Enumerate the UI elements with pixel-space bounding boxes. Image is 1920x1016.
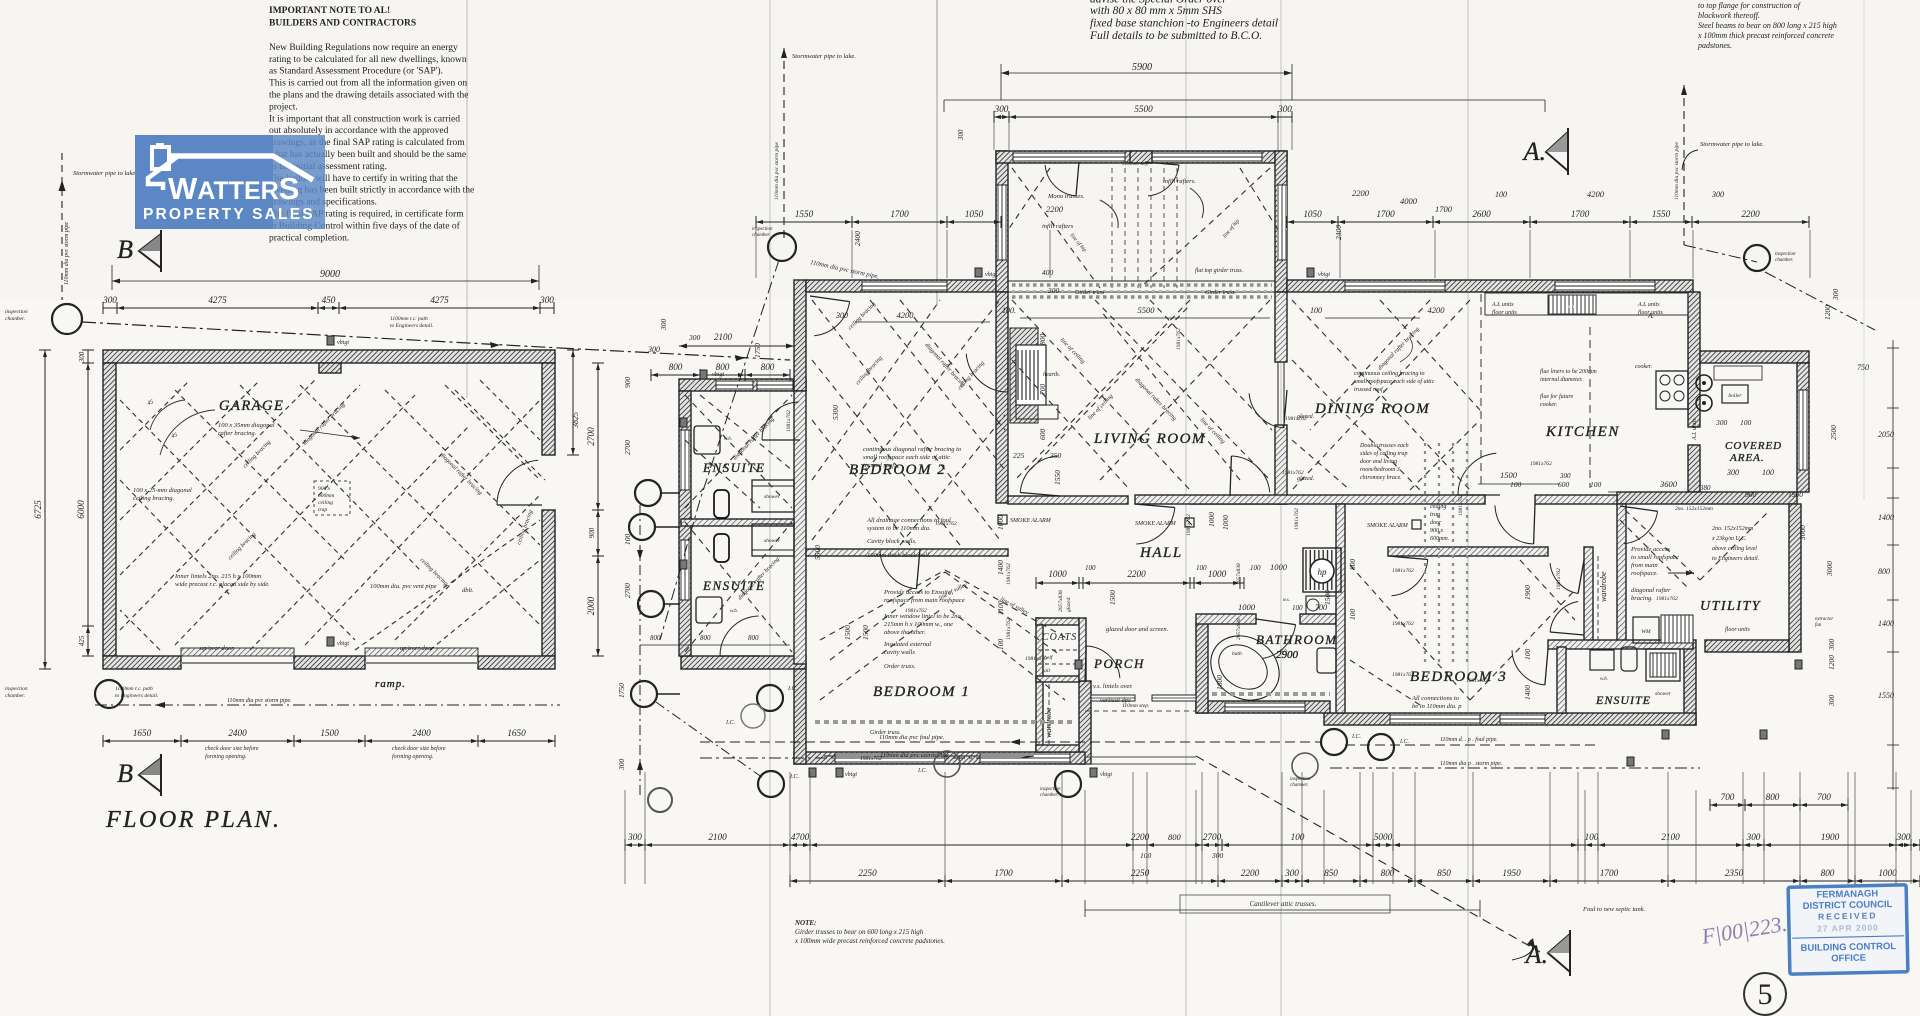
utility external door [1624, 511, 1658, 544]
svg-text:with 80 x 80 mm x 5mm SHS: with 80 x 80 mm x 5mm SHS [1090, 5, 1222, 17]
svg-text:110mm dia p . storm pipe.: 110mm dia p . storm pipe. [1440, 761, 1502, 767]
svg-text:DISTRICT COUNCIL: DISTRICT COUNCIL [1803, 899, 1893, 912]
svg-text:300: 300 [647, 345, 660, 354]
svg-text:x 23kg/m U.C.: x 23kg/m U.C. [1711, 536, 1747, 542]
svg-text:700: 700 [1315, 603, 1327, 612]
svg-text:300: 300 [1746, 832, 1761, 842]
bay north wall [996, 151, 1287, 163]
bay east glazing2 [1277, 185, 1287, 260]
boiler [1722, 385, 1748, 403]
svg-text:New Building Regulations now r: New Building Regulations now require an … [269, 43, 458, 53]
svg-text:to Engineers detail.: to Engineers detail. [115, 693, 158, 699]
vent/pipe marker [1627, 757, 1634, 766]
dining north window [1345, 281, 1445, 291]
svg-text:continuous ceiling bracing to: continuous ceiling bracing to [1354, 371, 1425, 377]
svg-text:900: 900 [623, 377, 632, 389]
inspection chamber [758, 771, 784, 797]
svg-text:100: 100 [1762, 468, 1774, 477]
svg-text:the plans and the drawing deta: the plans and the drawing details associ… [269, 91, 468, 101]
svg-text:GARAGE: GARAGE [219, 398, 284, 414]
inspection chamber [757, 685, 783, 711]
svg-text:w.b.: w.b. [1600, 677, 1608, 682]
svg-text:350: 350 [1049, 451, 1062, 460]
west wall below ensuite2 [794, 664, 806, 764]
svg-text:Full details to be submitted t: Full details to be submitted to B.C.O. [1089, 30, 1262, 42]
bottom right chain [1585, 844, 1911, 846]
garage right dim 3825 [572, 350, 574, 455]
svg-text:1981x762: 1981x762 [1466, 678, 1488, 684]
svg-text:1981x762: 1981x762 [1392, 672, 1414, 678]
bedroom3 south external wall [1324, 713, 1696, 725]
bathroom wc [1317, 648, 1336, 673]
svg-text:27 APR 2000: 27 APR 2000 [1817, 922, 1879, 933]
svg-text:100: 100 [1085, 564, 1096, 572]
garage top dim chain [103, 307, 554, 309]
bathroom north wall east [1300, 614, 1336, 624]
svg-text:100: 100 [1310, 306, 1322, 315]
svg-text:internal diameter.: internal diameter. [1540, 377, 1583, 383]
bedroom2 entry door [814, 302, 849, 336]
svg-text:800: 800 [1878, 567, 1890, 576]
svg-text:WM: WM [1641, 629, 1651, 635]
svg-text:1400: 1400 [996, 560, 1005, 575]
vent/pipe marker [700, 370, 707, 379]
garage door lintel right [365, 648, 478, 656]
kitchen east wall lower [1688, 445, 1700, 492]
svg-text:110mm d. . p . foul pipe.: 110mm d. . p . foul pipe. [1440, 736, 1498, 743]
vertical stormwater dashed (centre) [783, 48, 785, 240]
svg-text:above the other.: above the other. [884, 629, 926, 636]
svg-text:1900: 1900 [1788, 490, 1803, 499]
svg-text:2700: 2700 [623, 583, 632, 598]
bay west glazing2 [997, 185, 1007, 260]
svg-text:1550: 1550 [1053, 470, 1062, 485]
svg-text:inspection: inspection [1040, 787, 1061, 792]
svg-text:600: 600 [1558, 480, 1570, 489]
svg-text:AREA.: AREA. [1729, 452, 1765, 464]
svg-text:800: 800 [761, 362, 775, 372]
svg-text:1700: 1700 [890, 209, 909, 219]
svg-text:door: door [1430, 520, 1442, 526]
living-hall door left [1020, 456, 1058, 493]
svg-text:B: B [117, 235, 133, 264]
svg-text:room/bedroom 3: room/bedroom 3 [1360, 467, 1400, 473]
svg-text:SMOKE ALARM: SMOKE ALARM [1010, 518, 1052, 524]
bathroom cabinet [1306, 596, 1336, 614]
ceiling bracing dashed diagonals [812, 300, 1000, 540]
inspection chamber [1321, 729, 1347, 755]
svg-text:100: 100 [1140, 851, 1152, 860]
svg-text:chamber.: chamber. [1775, 258, 1793, 263]
svg-text:100: 100 [1523, 649, 1532, 661]
covered area east wall [1797, 363, 1809, 492]
ensuite3 shower [1646, 649, 1680, 681]
svg-text:110mm dia pvc storm pipe: 110mm dia pvc storm pipe [774, 141, 780, 200]
svg-text:100: 100 [1196, 564, 1207, 572]
svg-text:100: 100 [1250, 564, 1261, 572]
svg-text:roofspace.: roofspace. [1631, 570, 1658, 577]
garage perimeter path dashdot bottom [95, 704, 560, 706]
svg-text:5: 5 [1758, 978, 1773, 1011]
svg-text:BUILDERS AND CONTRACTORS: BUILDERS AND CONTRACTORS [269, 19, 416, 29]
svg-text:1000: 1000 [1878, 868, 1897, 878]
ensuite north rooflight 2 [757, 380, 793, 390]
svg-text:2057x838: 2057x838 [1058, 590, 1064, 612]
svg-text:Provide access: Provide access [1630, 546, 1670, 553]
svg-text:out absolutely in accordance w: out absolutely in accordance with the ap… [269, 126, 449, 136]
kitchen east wall [1688, 292, 1700, 427]
svg-text:flue liners to be 200mm: flue liners to be 200mm [1540, 368, 1597, 375]
utility sink drainer [1661, 615, 1693, 643]
svg-text:1000: 1000 [996, 515, 1005, 530]
svg-text:300: 300 [1277, 104, 1292, 114]
svg-text:300: 300 [1715, 418, 1728, 427]
svg-text:750: 750 [1857, 363, 1869, 372]
svg-text:2100: 2100 [1661, 832, 1680, 842]
inspection chamber top [768, 233, 796, 261]
coats east wall [1079, 618, 1086, 681]
svg-text:w.b.: w.b. [730, 609, 738, 614]
vent/pipe marker [1090, 768, 1097, 777]
svg-text:1981x762: 1981x762 [786, 410, 792, 432]
dimension extension hairlines bottom [644, 772, 646, 884]
pipe from right IC diagonal [1765, 272, 1875, 330]
svg-text:small roofspace each side of a: small roofspace each side of attic [1354, 378, 1435, 385]
dim chain right of bay [1287, 221, 1530, 223]
svg-text:2700: 2700 [623, 440, 632, 455]
svg-text:100: 100 [1740, 418, 1752, 427]
svg-text:1981x762: 1981x762 [1176, 328, 1182, 350]
cooker [1656, 371, 1688, 409]
svg-text:rail: rail [1042, 668, 1050, 674]
svg-text:to Engineers detail.: to Engineers detail. [390, 323, 433, 329]
inspection chamber [52, 304, 82, 334]
bay north glazing left [1013, 152, 1125, 162]
vent/pipe marker [1795, 660, 1802, 669]
svg-text:1981x762: 1981x762 [935, 521, 957, 527]
svg-text:1000: 1000 [1208, 569, 1227, 579]
inspection chamber [1055, 771, 1081, 797]
svg-text:dblt.: dblt. [462, 587, 474, 594]
garage ceiling trap door [314, 481, 350, 515]
council received stamp [1788, 885, 1908, 974]
svg-text:flat top girder truss.: flat top girder truss. [1195, 267, 1243, 274]
svg-text:KITCHEN: KITCHEN [1545, 424, 1620, 440]
utility north wall [1617, 492, 1797, 504]
svg-text:1100mm step: 1100mm step [1122, 162, 1149, 167]
svg-text:vbigt: vbigt [1318, 272, 1330, 278]
svg-text:be in 110mm dia. p: be in 110mm dia. p [1412, 703, 1462, 710]
svg-text:1981x762: 1981x762 [1530, 461, 1552, 467]
svg-text:check door size before: check door size before [205, 745, 259, 752]
svg-text:1600: 1600 [1215, 675, 1224, 690]
girder truss band bedroom1 [815, 720, 1075, 724]
svg-text:1500: 1500 [843, 625, 852, 640]
bedroom2/bedroom1 partition [806, 549, 1008, 556]
vent/pipe marker [809, 768, 816, 777]
svg-text:diagonal rafter: diagonal rafter [1631, 587, 1671, 594]
svg-text:4200: 4200 [1587, 189, 1605, 199]
ensuite2 wc [714, 534, 729, 562]
svg-text:Stormwater pipe to lake.: Stormwater pipe to lake. [792, 53, 856, 60]
svg-text:Double trusses each: Double trusses each [1359, 443, 1409, 449]
svg-text:1900: 1900 [1523, 585, 1532, 600]
svg-text:PORCH: PORCH [1093, 656, 1145, 671]
svg-text:1550: 1550 [1652, 209, 1671, 219]
svg-text:I.C.: I.C. [789, 774, 799, 780]
hall north wall right part [1535, 495, 1617, 504]
svg-text:600mm.: 600mm. [1430, 536, 1449, 542]
svg-text:600mm: 600mm [318, 493, 334, 499]
svg-text:Foul to new septic tank.: Foul to new septic tank. [1582, 906, 1646, 913]
svg-text:chamber.: chamber. [1290, 783, 1308, 788]
svg-text:1981x762: 1981x762 [905, 608, 927, 614]
svg-text:Steel beams to bear on 800 lon: Steel beams to bear on 800 long x 215 hi… [1698, 21, 1837, 30]
svg-text:2057x838: 2057x838 [1236, 618, 1242, 640]
svg-text:vbigt: vbigt [1100, 772, 1112, 778]
svg-text:3000: 3000 [1798, 525, 1807, 541]
living room south wall east part [1190, 496, 1287, 504]
svg-text:rating to be calculated for al: rating to be calculated for all new dwel… [269, 54, 467, 65]
bay french door l [1045, 165, 1076, 196]
bedroom3 south window [1390, 714, 1480, 724]
svg-text:800: 800 [669, 362, 683, 372]
svg-text:shower: shower [764, 494, 781, 500]
kitchen-hall door [1458, 453, 1496, 495]
inspection chamber [629, 514, 655, 540]
bay west wall [996, 151, 1008, 292]
svg-text:All connections to: All connections to [1411, 695, 1460, 702]
svg-text:100 x 35mm diagonal: 100 x 35mm diagonal [218, 422, 275, 429]
svg-text:ENSUITE: ENSUITE [702, 460, 766, 475]
svg-text:Cavity block walls.: Cavity block walls. [867, 538, 917, 545]
utility south wall [1705, 640, 1789, 652]
svg-text:800: 800 [748, 634, 759, 642]
north external wall right of bay [1287, 280, 1693, 292]
garage plan group [103, 350, 555, 690]
ensuite2 wb [696, 597, 722, 623]
vent/pipe marker [1307, 268, 1314, 277]
svg-text:chamber.: chamber. [752, 233, 770, 238]
svg-text:5000: 5000 [1374, 832, 1393, 842]
svg-text:300: 300 [1047, 286, 1060, 295]
svg-text:100: 100 [1590, 480, 1602, 489]
coats/wardrobe west wall [1036, 618, 1043, 752]
svg-text:900 x: 900 x [318, 486, 331, 492]
svg-text:300: 300 [1831, 289, 1840, 302]
vent/pipe marker [1662, 730, 1669, 739]
svg-text:vbigt: vbigt [337, 641, 349, 647]
svg-text:2900: 2900 [1276, 649, 1299, 661]
svg-text:blockwork thereoff.: blockwork thereoff. [1698, 11, 1760, 20]
svg-text:100: 100 [1510, 480, 1522, 489]
svg-text:BEDROOM 1: BEDROOM 1 [873, 684, 970, 700]
svg-text:forming opening.: forming opening. [205, 753, 246, 760]
dim chain left of bay [756, 221, 1001, 223]
svg-text:2no. 152x152mm: 2no. 152x152mm [1675, 506, 1713, 512]
svg-text:4275: 4275 [430, 295, 449, 305]
svg-text:450: 450 [322, 295, 336, 305]
garage bottom wall centre pier [294, 656, 365, 669]
svg-text:ceiling bracing.: ceiling bracing. [133, 495, 175, 502]
svg-text:110mm dia pvc storm pipe: 110mm dia pvc storm pipe [1674, 141, 1680, 200]
hall-porch door [1136, 508, 1174, 545]
svg-text:1700: 1700 [1571, 209, 1590, 219]
bay north centre pier [1130, 151, 1152, 163]
dashed kitchen zone lines [1480, 294, 1482, 488]
svg-text:110mm dia pvc foul pipe.: 110mm dia pvc foul pipe. [879, 734, 945, 741]
house dimensions [1000, 64, 1002, 100]
svg-text:A.L units: A.L units [1637, 302, 1660, 308]
bay mouth wall plate lines [1008, 280, 1275, 282]
svg-text:cooker.: cooker. [1635, 364, 1652, 370]
svg-text:1981x762: 1981x762 [1392, 568, 1414, 574]
svg-text:shower: shower [1655, 691, 1672, 697]
dimension extension hairlines top [755, 230, 757, 278]
garage top wall pier [319, 363, 341, 373]
svg-text:x 100mm wide precast reinforce: x 100mm wide precast reinforced concrete… [794, 937, 945, 945]
logo house icon [152, 147, 169, 169]
svg-text:above ceiling level: above ceiling level [1712, 546, 1757, 552]
svg-text:1900: 1900 [1821, 832, 1840, 842]
ensuite2 shower [752, 524, 794, 556]
svg-text:up/over door: up/over door [400, 645, 434, 652]
svg-text:100: 100 [1292, 604, 1303, 612]
svg-text:5500: 5500 [813, 545, 822, 560]
storm pipe from top IC down to wing [700, 260, 779, 500]
svg-text:1981x762: 1981x762 [860, 756, 882, 762]
svg-text:300: 300 [1711, 190, 1724, 199]
svg-text:2500: 2500 [1829, 425, 1838, 440]
inspection chamber [635, 480, 661, 506]
bathroom north wall [1196, 614, 1256, 624]
porch glazed front [1091, 695, 1135, 701]
svg-text:800: 800 [650, 634, 661, 642]
svg-text:1050: 1050 [965, 209, 984, 219]
svg-text:IMPORTANT NOTE TO AL!: IMPORTANT NOTE TO AL! [269, 6, 390, 16]
scan fold lines [769, 0, 771, 1016]
ensuite3 wb [1590, 650, 1614, 670]
svg-text:300: 300 [617, 759, 626, 772]
svg-text:6725: 6725 [33, 500, 43, 519]
svg-text:SMOKE ALARM: SMOKE ALARM [1367, 523, 1409, 529]
garage door threshold lines [181, 662, 294, 664]
svg-text:to top flange for construction: to top flange for construction of [1698, 1, 1802, 10]
svg-text:1400: 1400 [1878, 513, 1894, 522]
svg-text:ramp.: ramp. [375, 678, 406, 690]
garage dimension 9000 [111, 265, 113, 290]
svg-text:2200: 2200 [1127, 569, 1146, 579]
svg-text:HALL: HALL [1139, 545, 1183, 561]
svg-text:roofspace from main roofspace: roofspace from main roofspace [884, 597, 965, 604]
svg-text:A.: A. [1524, 940, 1548, 969]
svg-text:2000: 2000 [586, 596, 596, 615]
svg-text:check door size before: check door size before [392, 745, 446, 752]
bedroom2 north window [862, 281, 947, 291]
svg-text:vbigt: vbigt [845, 772, 857, 778]
svg-text:up/over door: up/over door [200, 645, 234, 652]
living-hall door right [1231, 456, 1269, 493]
svg-text:1750: 1750 [753, 343, 762, 358]
bedroom3 north wall [1388, 547, 1548, 556]
svg-text:225: 225 [1013, 451, 1025, 460]
svg-text:1750: 1750 [617, 683, 626, 698]
svg-text:800: 800 [1168, 832, 1182, 842]
svg-text:2200: 2200 [1241, 868, 1260, 878]
svg-text:1981x619: 1981x619 [1025, 656, 1047, 662]
svg-text:fan: fan [1815, 623, 1822, 628]
svg-text:I.C.: I.C. [917, 768, 927, 774]
svg-text:Girder truss: Girder truss [1075, 290, 1105, 296]
living/dining divider upper [1275, 292, 1287, 362]
svg-text:chamber.: chamber. [5, 316, 25, 322]
svg-text:bracing.: bracing. [1631, 595, 1653, 602]
svg-text:forming opening.: forming opening. [392, 753, 433, 760]
svg-text:100: 100 [996, 639, 1005, 651]
svg-text:small roofspace each side of a: small roofspace each side of attic [863, 454, 950, 461]
svg-text:100: 100 [1348, 609, 1357, 621]
bedroom1 south window 2 [980, 753, 1070, 763]
svg-text:1000: 1000 [1207, 512, 1216, 527]
garage dim 425 [87, 626, 89, 656]
svg-text:2400: 2400 [1334, 225, 1343, 240]
svg-text:850: 850 [1437, 868, 1451, 878]
svg-text:B: B [117, 759, 133, 788]
svg-text:PROPERTY SALES: PROPERTY SALES [143, 206, 315, 223]
svg-text:Stormwater pipe to lake.: Stormwater pipe to lake. [1700, 141, 1764, 148]
garage bottom dim chain [103, 740, 555, 742]
svg-text:1650: 1650 [133, 728, 152, 738]
svg-text:vertical dpc: vertical dpc [1100, 697, 1131, 704]
hall dim chain [1036, 582, 1244, 584]
svg-text:fixed base stanchion -to Engin: fixed base stanchion -to Engineers detai… [1090, 18, 1278, 30]
svg-text:100.: 100. [1002, 306, 1016, 315]
porch step [1085, 710, 1196, 712]
garage side door swing [497, 460, 538, 505]
glazed screen living/dining [1277, 362, 1279, 425]
west external wall of ensuites [679, 391, 691, 656]
svg-text:vbigt: vbigt [712, 372, 724, 378]
garage right wall lower [542, 510, 555, 656]
svg-text:trussed roof.: trussed roof. [1354, 386, 1384, 393]
svg-text:vbigt: vbigt [337, 340, 349, 346]
ensuite1/ensuite2 partition [681, 519, 794, 526]
ensuite2 west window [680, 540, 690, 600]
bedroom3 wardrobe door r [1550, 602, 1578, 633]
svg-text:900: 900 [588, 527, 596, 538]
ensuite north rooflight [716, 380, 753, 390]
inspection chamber [1368, 734, 1394, 760]
svg-text:Inner window lintel to be 2no.: Inner window lintel to be 2no. [883, 613, 963, 620]
svg-text:trap: trap [1430, 512, 1440, 518]
ensuite1 shower [752, 480, 794, 512]
svg-text:Insulated external: Insulated external [883, 641, 931, 648]
svg-text:300: 300 [1284, 868, 1299, 878]
svg-text:1100mm r.c. path: 1100mm r.c. path [115, 686, 153, 692]
svg-text:1981x762: 1981x762 [1458, 494, 1464, 516]
coats/wardrobe divider [1036, 676, 1079, 682]
ensuite2 door [720, 616, 759, 656]
svg-text:vbigt: vbigt [985, 272, 997, 278]
dim 700 800 700 [1710, 804, 1848, 806]
ensuite north wall [679, 379, 806, 391]
svg-text:4200: 4200 [1428, 305, 1446, 315]
svg-text:2400: 2400 [228, 728, 247, 738]
bedroom3 wardrobe door l [1550, 563, 1578, 594]
svg-text:LIVING ROOM: LIVING ROOM [1093, 431, 1206, 447]
bedroom1 south window [835, 753, 945, 763]
svg-text:1400: 1400 [1878, 619, 1894, 628]
